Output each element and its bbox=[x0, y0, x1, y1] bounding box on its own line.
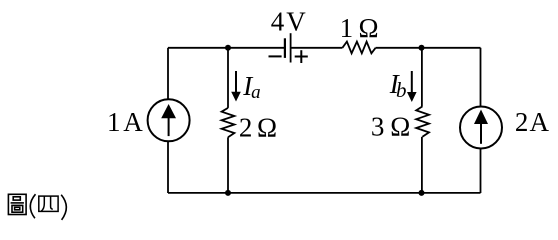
current source I1 arrow bbox=[161, 104, 176, 136]
current source I2 arrow bbox=[474, 110, 488, 144]
wire left vertical top bbox=[167, 48, 169, 100]
wire mid-right vertical top bbox=[421, 48, 423, 107]
svg-text:b: b bbox=[396, 78, 407, 102]
junction dot top-left node bbox=[225, 45, 231, 51]
wire mid-right vertical bottom bbox=[421, 137, 423, 193]
svg-text:A: A bbox=[530, 107, 550, 137]
svg-text:3: 3 bbox=[371, 112, 385, 142]
wire bottom bbox=[168, 192, 481, 194]
svg-text:a: a bbox=[251, 82, 261, 103]
svg-text:Ω: Ω bbox=[390, 112, 410, 142]
battery minus sign bbox=[269, 55, 282, 57]
wire right vertical bottom bbox=[480, 149, 482, 194]
current source I2 2A circle bbox=[460, 107, 502, 149]
wire left vertical bottom bbox=[167, 141, 169, 193]
junction dot bottom-left node bbox=[225, 190, 231, 196]
wire mid-left vertical top bbox=[227, 48, 229, 108]
svg-text:Ω: Ω bbox=[359, 13, 379, 43]
resistor R3 3ohm bbox=[416, 106, 429, 136]
svg-text:Ω: Ω bbox=[257, 112, 277, 142]
svg-text:V: V bbox=[286, 7, 306, 37]
wire right vertical top bbox=[480, 48, 482, 107]
wire mid-left vertical bottom bbox=[227, 137, 229, 193]
battery V1 4V bbox=[285, 33, 291, 62]
junction dot bottom-right node bbox=[419, 190, 425, 196]
svg-text:1: 1 bbox=[107, 107, 121, 137]
resistor R1 1ohm bbox=[342, 42, 375, 54]
resistor R2 2ohm bbox=[222, 108, 235, 137]
caption open paren bbox=[30, 194, 35, 218]
svg-text:2: 2 bbox=[239, 112, 253, 142]
current arrow Ia bbox=[231, 71, 241, 102]
battery plus sign bbox=[295, 50, 308, 63]
caption figure 4 glyph tu bbox=[8, 194, 26, 214]
svg-text:4: 4 bbox=[271, 7, 285, 37]
wire top-middle segment bbox=[292, 47, 343, 49]
caption close paren bbox=[61, 195, 66, 220]
wire top-left segment bbox=[168, 47, 284, 49]
caption glyph si bbox=[39, 196, 58, 211]
current source I1 1A circle bbox=[148, 99, 190, 141]
svg-text:A: A bbox=[123, 107, 143, 137]
junction dot top-right node bbox=[419, 45, 425, 51]
svg-text:2: 2 bbox=[515, 107, 529, 137]
wire top-right segment bbox=[376, 47, 481, 49]
svg-text:1: 1 bbox=[340, 13, 354, 43]
current arrow Ib bbox=[407, 71, 417, 102]
